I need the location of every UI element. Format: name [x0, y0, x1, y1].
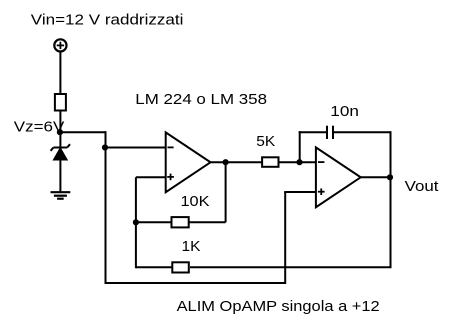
- wire op-amp U1 output: [211, 161, 263, 163]
- junction node C: [296, 159, 302, 165]
- svg-text:LM 224 o LM 358: LM 224 o LM 358: [135, 91, 267, 108]
- svg-text:10K: 10K: [181, 193, 210, 210]
- zener diode D1 Vz=6V: [51, 144, 70, 160]
- svg-text:Vout: Vout: [405, 178, 440, 195]
- wire resistor to node Vz: [59, 111, 61, 133]
- junction node Vout: [387, 174, 393, 180]
- svg-text:10n: 10n: [330, 103, 359, 120]
- wire down to node Vout: [390, 131, 392, 177]
- junction node A: [102, 144, 108, 150]
- resistor 1K: [172, 262, 189, 272]
- wire node Vz to right: [60, 131, 107, 133]
- wire node A to op-amp U1 inverting input: [105, 147, 166, 149]
- junction node D: [133, 219, 139, 225]
- junction node Vz: [57, 129, 63, 135]
- resistor 10K: [172, 217, 189, 227]
- wire node A down left rail: [105, 148, 107, 284]
- capacitor C1 10n: [327, 126, 333, 139]
- wire node C up to capacitor: [299, 131, 301, 162]
- power supply +12V terminal: [54, 39, 66, 51]
- resistor R1 (series, unlabeled): [55, 94, 66, 111]
- junction node B (U1 output): [223, 159, 229, 165]
- wire down to node A: [105, 131, 107, 147]
- wire 5K to op-amp U2 inverting input: [279, 161, 316, 163]
- wire to op-amp U1 non-inverting input: [136, 176, 166, 178]
- op-amp U2: [316, 147, 361, 207]
- svg-text:Vz=6V: Vz=6V: [14, 119, 65, 136]
- svg-text:1K: 1K: [182, 238, 201, 255]
- resistor 5K: [262, 157, 278, 167]
- wire zener anode to ground: [59, 159, 61, 192]
- wire to op-amp U2 non-inverting input: [284, 191, 316, 193]
- wire op-amp U2 output to node Vout: [361, 176, 391, 178]
- ground: [51, 192, 71, 199]
- wire up to op-amp U2 non-inverting input: [284, 192, 286, 284]
- wire bottom rail: [105, 282, 286, 284]
- svg-text:Vin=12 V raddrizzati: Vin=12 V raddrizzati: [31, 11, 184, 28]
- wire mid rail up to op-amp U1 non-inverting input: [135, 177, 137, 268]
- wire node Vout down to 1K feedback: [390, 177, 392, 267]
- wire node B down to 10K: [225, 162, 227, 222]
- wire node D to 10K: [136, 221, 172, 223]
- svg-text:5K: 5K: [256, 133, 275, 150]
- wire 10K to node B rail: [189, 221, 226, 223]
- wire to capacitor left plate: [299, 131, 326, 133]
- wire capacitor right plate to Vout rail: [334, 131, 391, 133]
- wire 1K right side: [190, 266, 392, 268]
- wire node Vz to zener cathode: [59, 132, 61, 147]
- wire supply to series resistor: [59, 52, 61, 95]
- op-amp U1: [166, 132, 211, 192]
- svg-text:ALIM OpAMP singola a +12: ALIM OpAMP singola a +12: [177, 298, 380, 315]
- wire 1K left side to mid rail: [136, 266, 172, 268]
